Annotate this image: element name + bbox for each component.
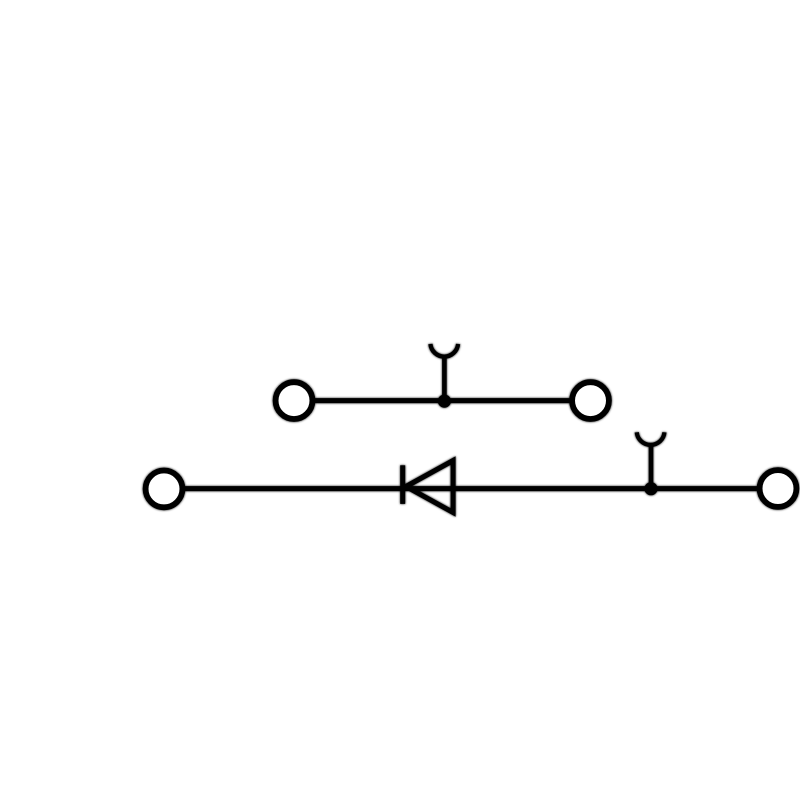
terminal circle lower-left <box>146 471 183 508</box>
diode D1 triangle (anode, pointing left) <box>406 461 453 513</box>
terminal circle upper-right <box>572 382 609 419</box>
terminal circle upper-left <box>276 382 313 419</box>
terminal circle lower-right <box>760 470 797 507</box>
junction dot upper node <box>438 395 451 408</box>
junction dot lower node <box>644 482 657 495</box>
wire upper rail <box>296 398 589 403</box>
diode D1 cathode bar <box>400 465 405 504</box>
wire lower rail <box>166 486 776 491</box>
test socket (tap) symbol upper <box>430 344 458 357</box>
wire test-tap stem lower <box>649 445 654 489</box>
wire test-tap stem upper <box>442 357 447 401</box>
test socket (tap) symbol lower <box>637 432 665 445</box>
